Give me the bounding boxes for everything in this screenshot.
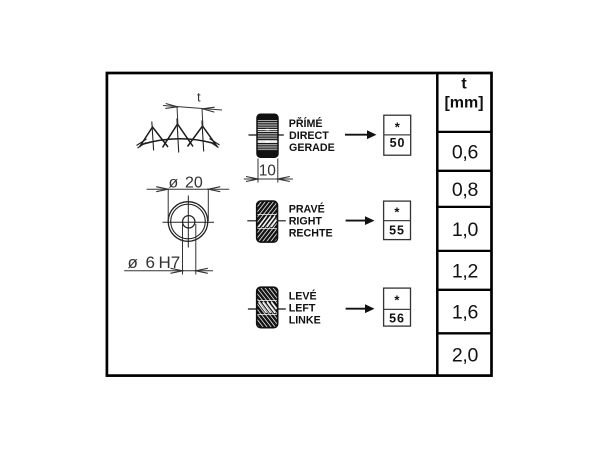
svg-text:2,0: 2,0	[452, 344, 479, 366]
svg-text:1,2: 1,2	[452, 260, 478, 282]
svg-text:LEVÉ: LEVÉ	[289, 290, 317, 303]
svg-text:t: t	[197, 90, 201, 105]
svg-text:GERADE: GERADE	[289, 142, 335, 154]
svg-text:DIRECT: DIRECT	[289, 130, 329, 142]
svg-text:20: 20	[185, 174, 203, 191]
svg-text:1,0: 1,0	[452, 219, 479, 241]
svg-text:0,8: 0,8	[452, 179, 478, 201]
svg-text:ø: ø	[128, 253, 138, 272]
svg-text:PRAVÉ: PRAVÉ	[289, 203, 325, 216]
svg-text:10: 10	[259, 163, 277, 180]
svg-text:LEFT: LEFT	[289, 303, 316, 315]
svg-text:1,6: 1,6	[452, 302, 478, 324]
svg-text:56: 56	[389, 312, 405, 326]
svg-text:ø: ø	[169, 174, 179, 191]
svg-text:55: 55	[389, 224, 405, 238]
svg-text:6: 6	[146, 253, 155, 272]
svg-text:RIGHT: RIGHT	[289, 216, 323, 228]
svg-text:50: 50	[390, 136, 406, 150]
svg-text:0,6: 0,6	[452, 141, 478, 163]
svg-text:RECHTE: RECHTE	[289, 228, 333, 240]
svg-text:t: t	[461, 76, 467, 93]
svg-text:PŘÍMÉ: PŘÍMÉ	[289, 117, 323, 130]
svg-text:[mm]: [mm]	[444, 95, 483, 112]
svg-text:H7: H7	[159, 253, 181, 272]
svg-text:LINKE: LINKE	[289, 315, 321, 327]
